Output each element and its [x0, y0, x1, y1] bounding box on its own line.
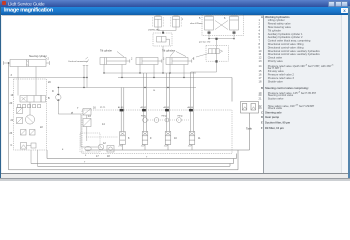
svg-text:Tilt cylinders: Tilt cylinders — [162, 50, 176, 53]
svg-text:14: 14 — [153, 90, 156, 92]
svg-text:22: 22 — [40, 126, 43, 129]
svg-text:A3 B3: A3 B3 — [164, 106, 170, 109]
svg-text:8: 8 — [128, 137, 130, 140]
svg-text:18: 18 — [107, 155, 110, 158]
svg-text:13: 13 — [88, 115, 91, 118]
svg-text:silos-470mm: silos-470mm — [190, 23, 203, 25]
svg-text:20: 20 — [10, 102, 13, 105]
svg-text:17: 17 — [96, 155, 99, 158]
svg-text:C: C — [11, 144, 13, 147]
svg-text:PB Sp: PB Sp — [178, 116, 183, 118]
svg-text:Tank: Tank — [246, 127, 253, 131]
svg-text:23: 23 — [10, 132, 13, 135]
svg-text:PB Sp: PB Sp — [141, 116, 146, 118]
svg-text:T: T — [146, 157, 148, 159]
svg-text:E: E — [62, 149, 64, 151]
svg-text:A2 B2: A2 B2 — [141, 106, 147, 109]
svg-text:per bar 170: per bar 170 — [199, 41, 211, 44]
svg-text:10: 10 — [174, 137, 177, 140]
svg-text:1: 1 — [182, 18, 184, 21]
svg-text:T: T — [84, 162, 86, 164]
svg-text:Tilt cylinder: Tilt cylinder — [100, 50, 112, 53]
svg-text:14: 14 — [102, 123, 105, 126]
svg-text:2: 2 — [163, 58, 165, 61]
svg-text:2: 2 — [131, 58, 133, 61]
svg-text:B: B — [48, 97, 50, 100]
svg-text:eS8/90-380: eS8/90-380 — [148, 30, 160, 32]
svg-text:D: D — [52, 90, 54, 93]
svg-text:F: F — [85, 155, 87, 157]
svg-text:5: 5 — [199, 17, 201, 20]
svg-text:P1 T1: P1 T1 — [100, 107, 106, 109]
svg-text:11: 11 — [198, 137, 201, 140]
svg-text:A4 B4: A4 B4 — [188, 106, 194, 109]
svg-text:20: 20 — [48, 81, 51, 84]
svg-text:6: 6 — [224, 17, 226, 20]
svg-text:Steering cylinder: Steering cylinder — [29, 55, 47, 58]
svg-text:12: 12 — [103, 142, 106, 145]
svg-text:3: 3 — [11, 74, 13, 77]
svg-text:A1 B1: A1 B1 — [118, 106, 124, 109]
svg-text:9: 9 — [150, 137, 152, 140]
svg-text:16: 16 — [93, 107, 96, 110]
svg-text:2: 2 — [48, 58, 50, 61]
svg-text:7: 7 — [77, 107, 79, 110]
svg-text:Fresh-oil connections: Fresh-oil connections — [69, 60, 88, 63]
svg-text:pt: pt — [71, 112, 73, 115]
svg-text:PB Sp: PB Sp — [162, 116, 167, 118]
